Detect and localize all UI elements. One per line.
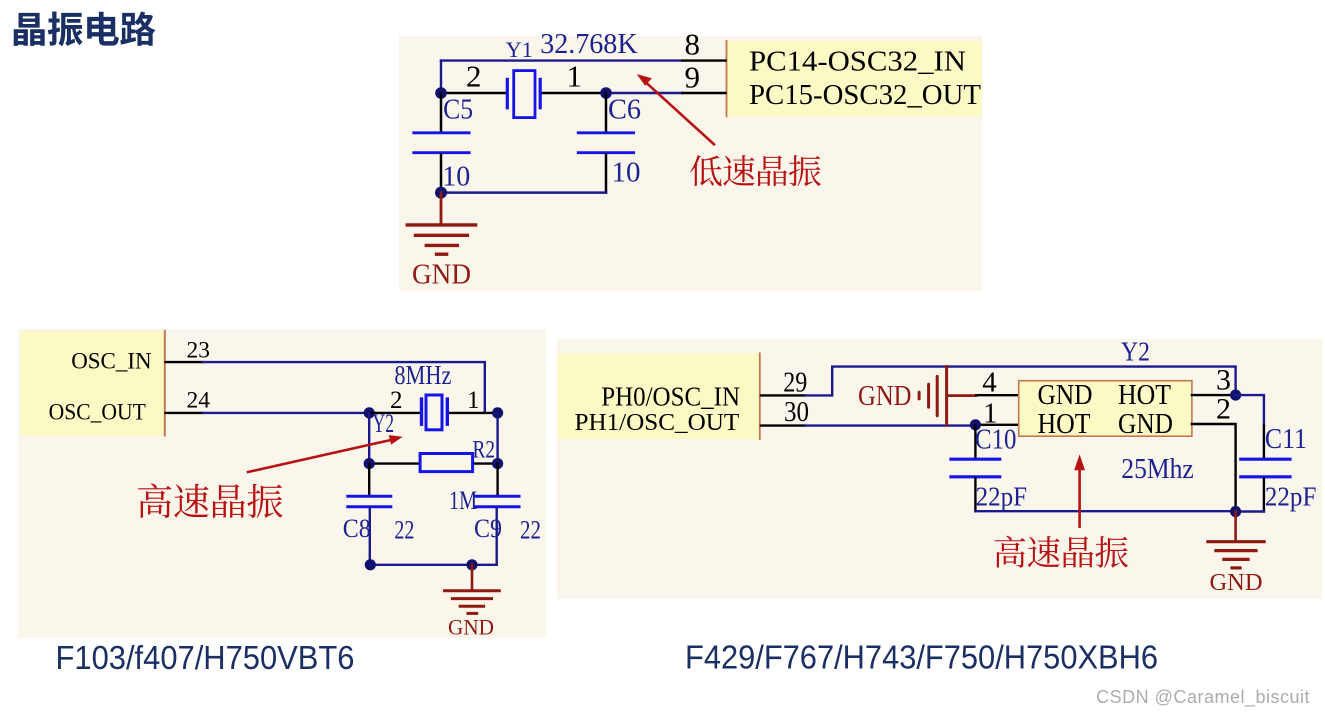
svg-text:HOT: HOT <box>1118 380 1171 411</box>
svg-text:22: 22 <box>394 516 414 545</box>
svg-text:GND: GND <box>1038 380 1093 411</box>
svg-text:32.768K: 32.768K <box>540 29 638 60</box>
wire pin 2 to rail (black) <box>1192 424 1236 512</box>
wire pin2 junction to R2 row (navy) <box>368 413 370 464</box>
svg-text:1: 1 <box>567 59 583 94</box>
svg-text:F103/f407/H750VBT6: F103/f407/H750VBT6 <box>56 639 355 676</box>
svg-text:C10: C10 <box>975 424 1017 455</box>
capacitor C10 <box>951 425 1000 511</box>
sheet symbol PH0/PH1 (yellow box) <box>558 353 760 439</box>
junction node rail GND <box>1230 506 1241 517</box>
svg-text:C9: C9 <box>474 514 502 543</box>
svg-text:4: 4 <box>982 366 997 398</box>
capacitor C9 <box>475 464 519 565</box>
svg-text:10: 10 <box>612 156 641 188</box>
svg-text:GND: GND <box>1210 570 1263 596</box>
wire C11 top stub (black) <box>1263 426 1265 458</box>
svg-text:23: 23 <box>187 337 211 363</box>
svg-text:22pF: 22pF <box>1265 482 1317 512</box>
svg-text:C6: C6 <box>608 95 641 126</box>
svg-text:30: 30 <box>784 396 809 428</box>
junction node Y2 pin2 <box>364 407 375 418</box>
junction node crystal pin1 <box>600 87 612 99</box>
resistor R2 <box>420 454 473 472</box>
svg-text:8MHz: 8MHz <box>394 360 451 390</box>
wire bottom rail (navy) <box>441 191 606 194</box>
wire bottom rail (navy) <box>975 510 1264 513</box>
svg-text:29: 29 <box>783 367 807 399</box>
svg-text:R2: R2 <box>473 437 496 464</box>
junction node pin1/wire23 <box>492 407 503 418</box>
annotation text 高速晶振 (bottom-right) <box>994 536 1128 568</box>
annotation text 高速晶振 (bottom-left) <box>138 483 283 518</box>
ground GND (bottom-right) <box>1208 512 1264 568</box>
junction node GND rail <box>435 187 447 199</box>
wire pin 3 stub (black) <box>1192 394 1236 396</box>
wire pin 1 stub (black) <box>975 424 1018 426</box>
capacitor C5 <box>414 93 469 193</box>
svg-text:OSC_IN: OSC_IN <box>71 349 152 374</box>
wire bottom rail (navy) <box>370 564 496 566</box>
wire net OSC_IN riser (navy) <box>805 367 1236 396</box>
svg-text:CSDN @Caramel_biscuit: CSDN @Caramel_biscuit <box>1096 687 1310 708</box>
arrow annotation high-speed (bottom-left) <box>248 435 403 472</box>
power ground symbol (sideways) <box>919 367 976 425</box>
component Y2 oscillator (yellow box) <box>1019 381 1192 437</box>
svg-text:2: 2 <box>1216 393 1231 426</box>
wire Y2 pin2 stub (black) <box>369 412 421 414</box>
svg-text:22: 22 <box>520 516 541 545</box>
crystal Y2 (8MHz) <box>422 395 448 430</box>
wire pin1 junction to R2 row (navy) <box>496 413 498 464</box>
sheet background bottom-right schematic <box>557 339 1322 599</box>
svg-text:C8: C8 <box>343 514 371 543</box>
svg-text:10: 10 <box>442 160 470 192</box>
wire pin 9 stub (black) <box>683 92 726 94</box>
svg-text:C11: C11 <box>1265 424 1307 455</box>
svg-text:PC15-OSC32_OUT: PC15-OSC32_OUT <box>749 79 981 111</box>
sheet symbol OSC_IN/OSC_OUT (yellow box) <box>21 331 166 436</box>
wire net OSC_OUT (navy) <box>805 424 975 426</box>
svg-text:C5: C5 <box>443 95 473 126</box>
wire pin 30 stub (black) <box>761 424 805 426</box>
sheet background bottom-left schematic <box>18 329 546 638</box>
svg-text:8: 8 <box>685 27 701 62</box>
svg-text:24: 24 <box>187 388 211 414</box>
wire pin 8 stub (black) <box>683 59 726 61</box>
sheet background top schematic <box>399 36 982 291</box>
svg-text:Y2: Y2 <box>373 409 395 438</box>
capacitor C6 <box>578 93 633 193</box>
sheet symbol PC14/PC15 (yellow box) <box>726 41 983 116</box>
wire net OSC_IN (navy) <box>203 362 485 412</box>
svg-text:9: 9 <box>685 59 701 94</box>
svg-text:PH0/OSC_IN: PH0/OSC_IN <box>601 381 740 412</box>
svg-text:GND: GND <box>448 615 494 640</box>
wire net OSC_OUT (navy) <box>203 412 370 414</box>
wire pin3 to C11 (navy) <box>1236 395 1264 426</box>
wire net OSC32_OUT (navy) <box>606 92 683 94</box>
wire pin 24 stub (black) <box>166 412 203 414</box>
svg-text:1: 1 <box>467 387 480 414</box>
wire pin 4 stub (black) <box>976 394 1019 396</box>
capacitor C11 <box>1241 459 1290 511</box>
junction node R2 left <box>364 458 375 469</box>
wire net OSC32_IN top (navy) <box>441 59 683 61</box>
junction node pin1/C10 <box>970 419 981 430</box>
svg-text:OSC_OUT: OSC_OUT <box>49 399 146 424</box>
annotation text 低速晶振 <box>690 155 821 186</box>
svg-text:Y1: Y1 <box>506 37 533 62</box>
wire pin 23 stub (black) <box>166 361 203 363</box>
wire left vertical to crystal <box>440 61 442 93</box>
svg-text:Y2: Y2 <box>1121 337 1150 367</box>
title 晶振电路 <box>14 12 156 47</box>
junction node pin3 <box>1230 390 1241 401</box>
wire R2 right stub (black) <box>473 462 498 464</box>
svg-text:22pF: 22pF <box>976 482 1028 512</box>
capacitor C8 <box>348 464 391 565</box>
svg-text:25Mhz: 25Mhz <box>1121 454 1194 485</box>
svg-text:PC14-OSC32_IN: PC14-OSC32_IN <box>749 46 966 78</box>
ground GND (bottom-left) <box>445 565 500 614</box>
svg-text:1M: 1M <box>449 486 477 515</box>
wire pin 29 stub (black) <box>761 394 805 396</box>
junction node crystal pin2 <box>435 87 447 99</box>
crystal Y1 <box>507 71 540 118</box>
junction node rail left <box>365 559 376 570</box>
arrow annotation high-speed (bottom-right) <box>1074 454 1085 526</box>
wire crystal pin1 (black) <box>542 92 606 94</box>
wire crystal pin2 (black) <box>441 92 507 94</box>
arrow annotation low-speed <box>637 74 714 144</box>
junction node R2 right <box>492 458 503 469</box>
junction node rail GND <box>466 559 477 570</box>
svg-text:2: 2 <box>466 59 482 94</box>
svg-text:GND: GND <box>1118 409 1173 440</box>
wire R2 left stub (black) <box>369 462 420 464</box>
svg-text:PH1/OSC_OUT: PH1/OSC_OUT <box>575 409 740 436</box>
svg-text:GND: GND <box>858 380 912 412</box>
ground GND (top section) <box>407 193 475 255</box>
svg-text:F429/F767/H743/F750/H750XBH6: F429/F767/H743/F750/H750XBH6 <box>685 639 1158 676</box>
svg-text:GND: GND <box>412 260 471 291</box>
svg-text:HOT: HOT <box>1038 409 1091 440</box>
wire Y2 pin1 stub (black) <box>448 412 498 414</box>
